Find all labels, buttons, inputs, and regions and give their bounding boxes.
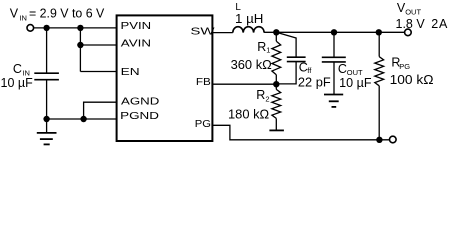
- IC U1 body: [117, 15, 213, 141]
- svg-text:C: C: [13, 62, 22, 76]
- junction FB node: [273, 81, 279, 87]
- wire SW to inductor: [212, 32, 232, 34]
- wire CIN top lead: [46, 28, 48, 73]
- wire to AVIN pin: [80, 44, 116, 46]
- ground tick (R2): [269, 129, 284, 131]
- svg-text:= 2.9 V to 6 V: = 2.9 V to 6 V: [29, 7, 105, 21]
- svg-text:AVIN: AVIN: [121, 38, 151, 49]
- capacitor COUT: [322, 32, 346, 94]
- ground (CIN): [37, 133, 57, 145]
- svg-text:100 kΩ: 100 kΩ: [390, 73, 434, 87]
- label 1.8 V 2 A: [396, 17, 449, 31]
- svg-text:PVIN: PVIN: [121, 21, 152, 32]
- junction PG node: [376, 137, 382, 143]
- ground (COUT): [324, 95, 343, 107]
- svg-text:360 kΩ: 360 kΩ: [231, 58, 272, 72]
- svg-text:R: R: [256, 88, 265, 102]
- output terminal PG: [390, 136, 397, 143]
- junction R1 node: [273, 29, 279, 35]
- svg-text:2: 2: [265, 95, 269, 104]
- label R1: [257, 40, 270, 55]
- label CIN: [13, 62, 30, 77]
- resistor RPG: [375, 32, 384, 140]
- svg-text:1: 1: [266, 45, 270, 54]
- input terminal VIN: [27, 25, 34, 32]
- label R2: [256, 88, 269, 104]
- wire to EN pin: [80, 71, 116, 73]
- svg-text:PG: PG: [195, 119, 211, 130]
- junction AVIN branch node: [77, 25, 83, 31]
- svg-text:10 µF: 10 µF: [1, 76, 34, 90]
- junction AVIN node: [77, 42, 83, 48]
- wire ground lead: [46, 119, 48, 133]
- capacitor CIN: [34, 73, 59, 80]
- label RPG: [391, 55, 410, 71]
- svg-text:PGND: PGND: [120, 111, 159, 122]
- wire PG: [212, 125, 389, 140]
- svg-text:OUT: OUT: [405, 8, 421, 17]
- label VOUT: [397, 1, 422, 17]
- svg-text:1 µH: 1 µH: [235, 12, 263, 26]
- svg-text:EN: EN: [121, 67, 140, 78]
- output terminal VOUT: [405, 29, 412, 36]
- inductor L: [233, 27, 264, 33]
- wire AGND branch: [84, 102, 117, 119]
- junction RPG node: [376, 29, 382, 35]
- wire VIN rail to PVIN: [34, 27, 117, 29]
- junction AGND branch node: [80, 116, 86, 122]
- wire bottom rail to PGND: [47, 118, 117, 120]
- label Cff: [299, 61, 312, 75]
- capacitor Cff branch: [276, 32, 305, 84]
- svg-text:FB: FB: [196, 77, 211, 88]
- svg-text:10 µF: 10 µF: [339, 76, 372, 90]
- wire FB: [212, 83, 276, 85]
- resistor R1: [272, 32, 281, 84]
- svg-text:V: V: [10, 7, 19, 21]
- svg-text:PG: PG: [399, 62, 410, 71]
- svg-text:180 kΩ: 180 kΩ: [228, 108, 269, 122]
- label COUT: [338, 62, 363, 77]
- svg-text:IN: IN: [19, 13, 27, 22]
- label VIN = 2.9 V to 6 V: [10, 7, 105, 23]
- junction ground node: [43, 116, 49, 122]
- svg-text:2: 2: [431, 17, 438, 31]
- svg-text:SW: SW: [190, 26, 215, 37]
- svg-text:C: C: [338, 62, 347, 76]
- svg-text:A: A: [439, 17, 448, 31]
- junction CIN node: [43, 25, 49, 31]
- wire inductor to output rail: [264, 31, 405, 33]
- wire AVIN vertical branch: [79, 28, 81, 72]
- junction COUT node: [331, 29, 337, 35]
- wire CIN bottom lead: [46, 80, 48, 119]
- resistor R2: [272, 84, 281, 130]
- svg-text:R: R: [257, 40, 266, 54]
- svg-text:22 pF: 22 pF: [298, 76, 331, 90]
- svg-text:1.8 V: 1.8 V: [396, 17, 426, 31]
- svg-text:AGND: AGND: [121, 96, 159, 107]
